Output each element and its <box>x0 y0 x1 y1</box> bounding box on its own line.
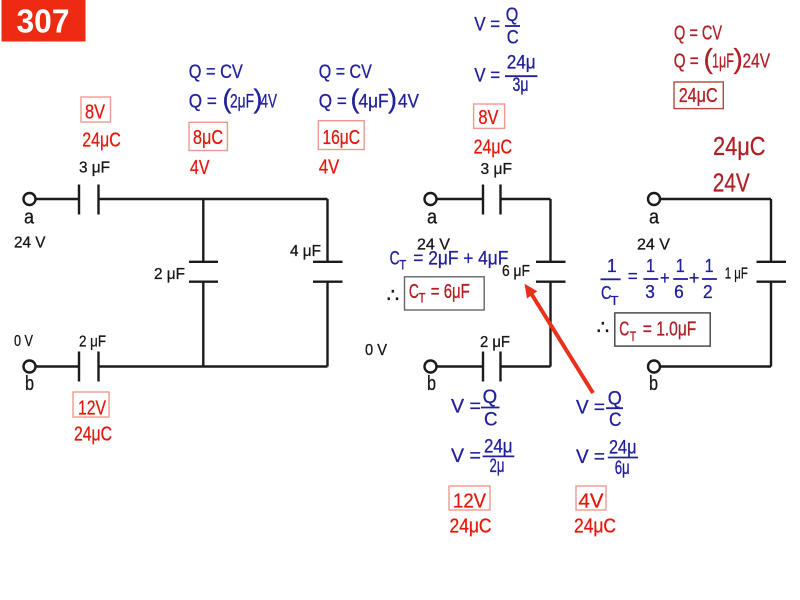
svg-text:+: + <box>689 267 700 288</box>
svg-text:2μF: 2μF <box>230 92 254 113</box>
svg-text:=: = <box>628 265 638 286</box>
svg-text:4V: 4V <box>190 157 210 179</box>
svg-text:24μC: 24μC <box>474 137 512 159</box>
svg-text:8V: 8V <box>478 107 499 129</box>
svg-text:24 V: 24 V <box>637 237 671 254</box>
svg-text:1: 1 <box>676 255 685 276</box>
svg-text:24V: 24V <box>713 168 751 198</box>
svg-text:24μC: 24μC <box>74 424 112 446</box>
svg-text:4V: 4V <box>398 92 419 113</box>
svg-text:3 μF: 3 μF <box>79 160 110 177</box>
svg-text:4V: 4V <box>261 92 278 113</box>
svg-text:4 μF: 4 μF <box>290 243 321 260</box>
svg-text:8V: 8V <box>85 102 106 124</box>
svg-text:Q = CV: Q = CV <box>319 62 372 83</box>
svg-text:T: T <box>611 293 619 308</box>
svg-text:C: C <box>484 409 498 430</box>
svg-text:24μ: 24μ <box>507 52 536 73</box>
svg-text:T: T <box>419 290 426 306</box>
svg-text:1μF: 1μF <box>712 51 734 73</box>
svg-text:Q = CV: Q = CV <box>674 23 722 45</box>
svg-text:): ) <box>734 43 743 74</box>
svg-text:8μC: 8μC <box>193 127 223 149</box>
svg-text:3 μF: 3 μF <box>481 161 513 178</box>
svg-text:307: 307 <box>17 3 70 40</box>
svg-text:Q =: Q = <box>189 92 217 113</box>
svg-text:3: 3 <box>645 281 655 302</box>
svg-text:a: a <box>427 207 438 229</box>
svg-text:C: C <box>507 27 519 48</box>
svg-text:Q: Q <box>506 5 519 26</box>
svg-text:C: C <box>619 319 629 341</box>
svg-text:C: C <box>409 281 419 303</box>
svg-text:1: 1 <box>646 255 655 276</box>
svg-text:= 2μF + 4μF: = 2μF + 4μF <box>413 249 508 270</box>
svg-text:24μ: 24μ <box>484 436 513 457</box>
svg-text:24μC: 24μC <box>82 129 121 151</box>
svg-text:V =: V = <box>576 398 605 419</box>
svg-text:∴: ∴ <box>597 317 610 339</box>
svg-text:2 μF: 2 μF <box>79 334 106 351</box>
svg-text:Q =: Q = <box>319 92 347 113</box>
svg-text:V =: V = <box>451 446 481 467</box>
svg-text:24V: 24V <box>743 51 771 73</box>
svg-text:2 μF: 2 μF <box>154 266 185 283</box>
svg-text:24μ: 24μ <box>609 438 637 459</box>
svg-text:12V: 12V <box>78 398 107 420</box>
svg-text:4μF: 4μF <box>359 92 389 113</box>
svg-text:24 V: 24 V <box>14 235 46 252</box>
svg-text:2 μF: 2 μF <box>480 334 510 351</box>
svg-text:V =: V = <box>474 66 500 87</box>
svg-text:12V: 12V <box>453 491 487 513</box>
svg-text:b: b <box>427 373 436 395</box>
svg-text:): ) <box>388 84 397 114</box>
svg-text:0 V: 0 V <box>14 333 34 350</box>
svg-text:C: C <box>390 249 400 270</box>
svg-text:= 6μF: = 6μF <box>431 281 470 303</box>
svg-text:2: 2 <box>703 281 713 302</box>
svg-text:T: T <box>399 258 406 273</box>
svg-text:= 1.0μF: = 1.0μF <box>643 319 697 341</box>
svg-text:16μC: 16μC <box>323 127 361 149</box>
svg-text:1 μF: 1 μF <box>725 266 748 283</box>
svg-text:C: C <box>609 410 622 431</box>
svg-text:6μ: 6μ <box>615 458 630 479</box>
svg-text:∴: ∴ <box>387 285 400 307</box>
svg-text:Q = CV: Q = CV <box>189 62 243 83</box>
svg-text:2μ: 2μ <box>490 456 505 477</box>
svg-text:4V: 4V <box>579 491 605 513</box>
svg-text:1: 1 <box>705 255 714 276</box>
svg-text:1: 1 <box>607 255 617 276</box>
svg-text:T: T <box>630 328 637 344</box>
svg-text:+: + <box>660 267 670 288</box>
svg-text:24μC: 24μC <box>679 85 718 107</box>
svg-text:V =: V = <box>451 397 481 418</box>
svg-text:24μC: 24μC <box>450 516 492 538</box>
svg-text:a: a <box>649 207 660 229</box>
svg-text:24μC: 24μC <box>713 131 766 161</box>
svg-text:V =: V = <box>576 447 605 468</box>
svg-text:Q: Q <box>608 388 622 409</box>
svg-text:24μC: 24μC <box>574 516 616 538</box>
svg-text:b: b <box>25 373 34 395</box>
svg-text:V =: V = <box>474 15 500 36</box>
svg-text:6: 6 <box>674 281 684 302</box>
svg-text:b: b <box>649 373 658 395</box>
svg-text:0 V: 0 V <box>365 342 388 359</box>
svg-text:Q =: Q = <box>674 51 699 73</box>
svg-text:Q: Q <box>483 387 498 408</box>
svg-text:4V: 4V <box>319 157 340 179</box>
svg-text:a: a <box>24 207 35 229</box>
svg-text:3μ: 3μ <box>513 75 529 96</box>
